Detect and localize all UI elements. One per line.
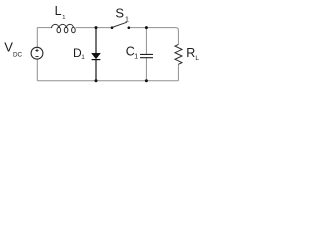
switch S1 left terminal dot [111,26,114,29]
wire left branch lower (source bottom lead) [36,59,38,80]
resistor RL zigzag [175,44,182,64]
wire capacitor bottom lead [145,58,147,80]
wire resistor bottom lead [177,64,179,80]
wire resistor top lead [177,30,179,44]
wire diode branch leads [95,28,97,81]
svg-text:1: 1 [62,15,65,21]
voltage source plus sign [35,49,38,52]
wire left branch upper (source top lead) [36,28,38,48]
node junction dot top capacitor [145,26,148,29]
wire top rail middle segment (inductor to switch) [76,27,112,29]
svg-text:1: 1 [125,15,129,24]
diode D1 cathode bar [92,59,101,61]
svg-text:DC: DC [13,51,23,58]
svg-text:V: V [4,40,13,55]
wire bottom rail [37,80,178,82]
node junction dot top diode [95,26,98,29]
wire top rail right segment (switch to corner) [130,28,179,31]
switch S1 right terminal dot [128,26,131,29]
node junction dot bottom capacitor [145,79,148,82]
capacitor C1 plates [140,54,153,57]
switch S1 blade [112,22,127,27]
svg-text:1: 1 [81,55,85,61]
voltage source minus sign [35,56,38,58]
wire capacitor top lead [145,28,147,54]
inductor L1 coil [52,24,76,32]
diode D1 triangle [92,53,101,59]
svg-text:R: R [186,46,195,60]
svg-text:L: L [195,55,199,62]
voltage source V_DC circle [31,47,43,59]
svg-text:L: L [55,4,62,18]
svg-text:S: S [115,6,124,21]
wire top rail left segment [37,28,178,81]
node junction dot bottom diode [95,79,98,82]
svg-text:1: 1 [134,53,138,60]
